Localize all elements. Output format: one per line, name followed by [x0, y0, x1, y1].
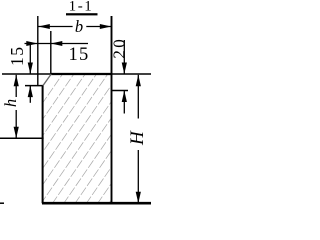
svg-text:H: H: [127, 130, 148, 146]
dimension h line (x=16.2): [15, 75, 17, 97]
dimension b line: [38, 26, 72, 28]
bottom edge + H extension: [42, 202, 151, 205]
extension line x=50.8 (15 right): [50, 31, 52, 74]
15h right arrow (points left, tip at x=50.8): [51, 41, 63, 46]
h top arrow (points up, tip y=74.8): [14, 75, 19, 87]
section right edge + b right extension: [111, 16, 113, 203]
dimension 15 vertical line (x=30.3): [29, 44, 31, 74]
section top edge: [51, 73, 112, 75]
dimension H line (x=138.3): [137, 75, 139, 119]
extension line for h bottom: [0, 137, 44, 139]
hatching: [0, 74, 198, 204]
section left edge: [42, 86, 44, 204]
20 bottom arrow (points up, tip y=90.5): [122, 91, 127, 103]
15h left arrow (points right, tip at x=37.8): [26, 41, 38, 46]
dimension 15 horizontal line: [25, 43, 89, 45]
svg-text:20: 20: [109, 37, 128, 59]
extension line for 20 bottom: [112, 90, 129, 92]
dimension 20 line (x=124.3): [123, 40, 125, 74]
small left dash at bottom: [0, 202, 4, 204]
svg-text:15: 15: [7, 46, 27, 67]
svg-text:h: h: [1, 99, 20, 107]
b right arrow: [100, 24, 112, 29]
chamfer: [43, 74, 51, 86]
svg-text:b: b: [75, 17, 83, 36]
notch bottom extension line: [25, 85, 44, 87]
b left arrow: [38, 24, 50, 29]
15v bottom arrow (points up, tip y=85.6): [28, 86, 33, 98]
extension line x=37.8 (b left / 15 left): [37, 16, 39, 86]
H bottom arrow (points down, tip y=203.2): [136, 192, 141, 204]
svg-text:1-1: 1-1: [69, 0, 94, 15]
title underline: [66, 13, 98, 15]
20 top arrow (points down, tip y=74): [122, 63, 127, 75]
svg-text:15: 15: [69, 45, 90, 65]
15v top arrow (points down, tip y=74): [28, 63, 33, 75]
extension line top reference (y=74): [2, 73, 151, 75]
H top arrow (points up, tip y=74.8): [136, 75, 141, 87]
h bottom arrow (points down, tip y=138.3): [14, 127, 19, 139]
